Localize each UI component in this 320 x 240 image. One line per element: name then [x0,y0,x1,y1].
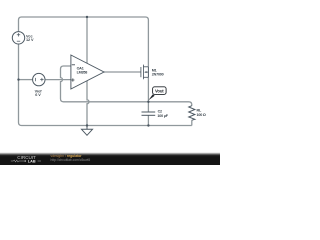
wire Vref left lead [19,79,33,81]
svg-text:100 µF: 100 µF [157,114,168,118]
op-amp minus input mark [72,64,75,66]
ground [82,126,93,136]
junction node op-amp V+/top rail [86,16,88,18]
svg-text:LM358: LM358 [77,71,88,75]
svg-text:6 V: 6 V [35,93,41,97]
junction node C2 bottom rail [147,124,149,126]
voltage source V2 Vref [33,73,45,85]
svg-text:C2: C2 [158,110,162,114]
transistor M1 drain/source leads [147,67,149,78]
wire left rail [19,44,192,125]
wire C2 top lead [147,102,149,112]
wire Vout to RL [148,102,191,106]
svg-text:LAB: LAB [28,160,36,164]
op-amp plus input mark [71,78,74,81]
svg-text:Vout: Vout [155,88,164,93]
junction node Vout [147,101,149,103]
wire op-amp V+ pin [86,17,88,63]
svg-text:100 Ω: 100 Ω [197,113,206,117]
watermark bar [0,152,220,165]
capacitor C2 [142,112,156,115]
voltage source V1 Vcc [12,32,24,44]
wire op-amp output to gate [104,71,141,73]
wire MOSFET source to Vout node [147,77,149,102]
watermark logo wire [11,160,24,162]
wire feedback to minus input [61,66,149,102]
svg-text:2N7000: 2N7000 [152,73,164,77]
wire op-amp V- pin to ground [87,81,89,126]
junction node Vref/left rail [17,78,19,80]
junction node ground/bottom rail [86,124,88,126]
op-amp OA1 [71,55,104,89]
node flag Vout [148,94,154,100]
wire C2 bottom lead [147,115,149,125]
resistor RL [189,106,195,121]
svg-text:http://circuitlab.com/c5uwt5: http://circuitlab.com/c5uwt5 [51,158,91,162]
wire top rail [19,17,149,67]
wire RL bottom lead [191,120,193,125]
wire Vref to op-amp plus input [45,79,71,81]
svg-text:12 V: 12 V [26,38,34,42]
transistor M1 arrow [144,71,146,73]
transistor M1 NMOS [141,65,149,80]
